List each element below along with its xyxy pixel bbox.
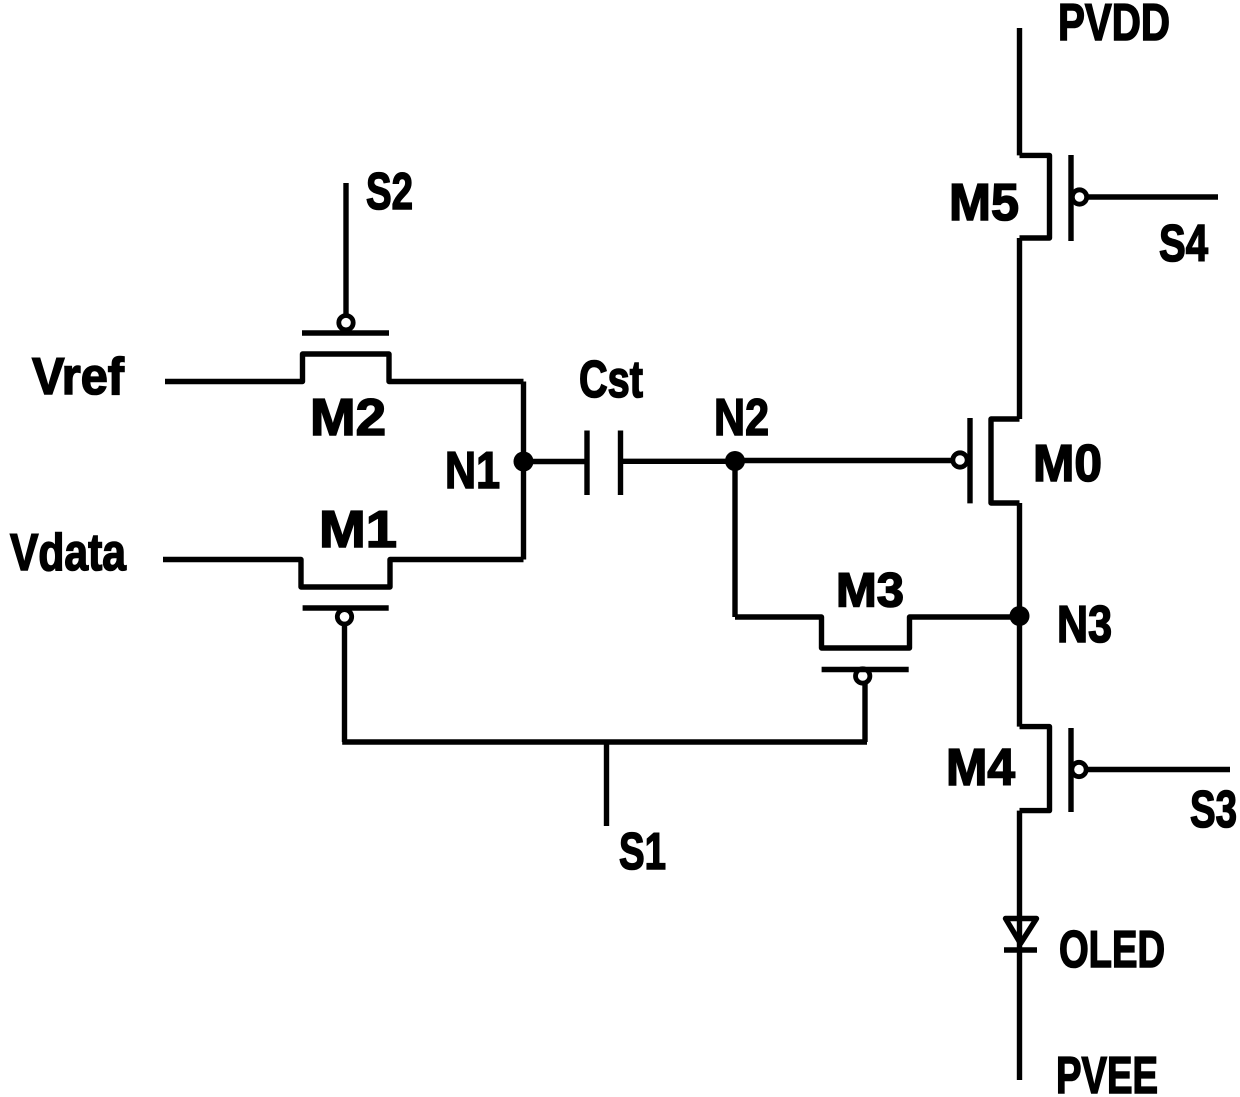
wire S1 horizontal [342,739,867,744]
svg-text:M4: M4 [946,739,1015,797]
wire PVDD down to M5 [1017,28,1022,155]
wire N2 down to M3 [732,461,737,617]
transistor M5 channel [1020,155,1050,238]
wire M4 gate to S3 [1088,767,1231,772]
wire M0 down through N3 to M4 [1017,503,1022,727]
transistor M4 gate bar [1068,728,1073,812]
wire M5 gate to S4 [1087,194,1218,199]
diode OLED cathode bar [1004,947,1037,952]
svg-text:S3: S3 [1190,781,1237,839]
svg-text:N3: N3 [1057,596,1112,654]
svg-text:OLED: OLED [1059,921,1165,979]
transistor M1 gate line [303,605,389,610]
transistor M1 gate bubble [337,610,351,624]
diode OLED triangle [1006,919,1037,944]
transistor M0 channel [991,419,1020,503]
wire S1 stub [604,742,609,826]
wire M1 gate lead down [342,624,347,742]
svg-text:M2: M2 [310,389,386,447]
wire M4 down to PVEE [1017,811,1022,1080]
transistor M5 gate bar [1068,155,1073,241]
wire M3 channel row to N3 [735,617,1020,648]
svg-text:S1: S1 [619,823,666,881]
capacitor Cst plate left [584,431,589,496]
wire Vref to M2 to node column [165,354,524,382]
svg-text:N2: N2 [714,389,769,447]
svg-text:Vdata: Vdata [10,524,127,582]
transistor M2 gate line [302,330,389,335]
capacitor Cst plate right [618,431,623,496]
wire N1 to capacitor [524,459,586,464]
wire M3 gate lead down [862,683,867,742]
svg-text:PVDD: PVDD [1058,0,1170,52]
transistor M3 gate line [822,667,909,672]
wire Vdata to M1 to node column [163,560,524,588]
transistor M3 gate bubble [856,669,870,683]
wire N2 to M0 gate [735,458,953,463]
svg-text:S2: S2 [366,163,413,221]
svg-text:PVEE: PVEE [1056,1047,1158,1097]
transistor M5 gate bubble [1072,190,1086,204]
transistor M0 gate bubble [953,453,967,467]
node N2 junction dot [725,451,745,471]
transistor M4 gate bubble [1072,762,1086,776]
wire S2 lead [343,183,348,315]
svg-text:N1: N1 [445,442,500,500]
wire capacitor to N2 [622,459,735,464]
svg-text:M0: M0 [1033,435,1102,493]
wire vertical N1 column [521,382,526,560]
svg-text:M5: M5 [949,174,1019,232]
svg-text:S4: S4 [1159,215,1208,273]
transistor M4 channel [1020,727,1050,811]
svg-text:Cst: Cst [579,351,643,409]
svg-text:M1: M1 [319,501,397,559]
svg-text:M3: M3 [836,565,904,618]
node N3 junction dot [1010,606,1030,626]
transistor M2 gate bubble [339,316,353,330]
node N1 junction dot [514,452,534,472]
svg-text:Vref: Vref [32,348,125,406]
transistor M0 gate bar [967,418,972,503]
wire M5 to M0 [1017,238,1022,419]
